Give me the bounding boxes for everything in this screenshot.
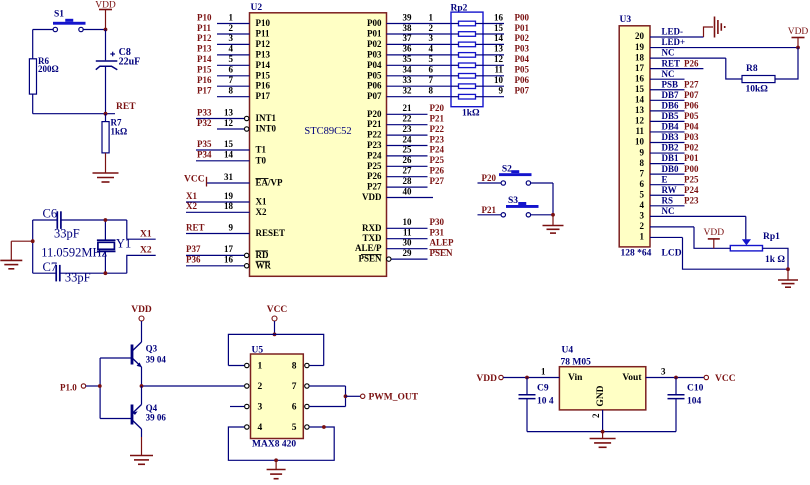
Rp2 pin 14 wire [483, 33, 529, 44]
svg-text:1kΩ: 1kΩ [462, 109, 480, 119]
Rp2 resistor 8 [459, 94, 476, 99]
Rp2 pin 15 wire [483, 23, 529, 34]
wire [32, 30, 34, 59]
svg-text:P02: P02 [367, 39, 382, 49]
svg-text:P26: P26 [367, 171, 382, 181]
Rp2 pin 13 wire [483, 44, 529, 55]
wire [141, 437, 143, 456]
U2 pin 35 wire (P04) [367, 54, 451, 70]
U2 pin 12 wire (INT0) [197, 118, 277, 134]
svg-text:5: 5 [429, 54, 434, 64]
Rp2 pin 16 wire [483, 12, 529, 23]
wire pin4/pin5 ground loop [228, 427, 334, 460]
Rp2 resistor 5 [459, 63, 476, 68]
svg-text:P15: P15 [256, 70, 271, 80]
wire [104, 251, 106, 273]
svg-text:Vin: Vin [568, 373, 583, 383]
svg-text:P05: P05 [684, 111, 699, 121]
svg-text:P11: P11 [197, 23, 212, 33]
U3 pin 18 wire (NC) [635, 48, 726, 63]
Rp2 resistor 7 [459, 84, 476, 89]
svg-text:31: 31 [224, 172, 234, 182]
U3 pin 16 wire (NC) [635, 69, 685, 84]
svg-text:DB7: DB7 [662, 90, 680, 100]
U2 pin 33 wire (P06) [367, 75, 451, 91]
svg-text:P07: P07 [684, 90, 699, 100]
svg-text:P24: P24 [367, 150, 382, 160]
svg-text:17: 17 [635, 63, 645, 73]
U2 pin 34 wire (P05) [367, 65, 451, 81]
svg-text:Q3: Q3 [146, 344, 158, 354]
svg-text:39 06: 39 06 [146, 413, 167, 423]
svg-text:P22: P22 [430, 124, 445, 134]
svg-text:S3: S3 [508, 196, 518, 206]
svg-text:P05: P05 [367, 70, 382, 80]
wire [104, 220, 106, 240]
svg-text:6: 6 [429, 65, 434, 75]
svg-text:P01: P01 [515, 23, 530, 33]
U2 pin 4 wire (P13) [197, 44, 270, 60]
svg-text:P03: P03 [515, 44, 530, 54]
U2 pin 21 wire (P20) [367, 103, 444, 119]
node junction [786, 267, 790, 271]
Rp2 pin 1 wire [429, 12, 484, 23]
svg-text:30: 30 [403, 238, 413, 248]
svg-text:P04: P04 [367, 60, 382, 70]
Rp2 pin 12 wire [483, 54, 529, 65]
svg-text:10: 10 [494, 75, 504, 85]
node junction [344, 394, 348, 398]
svg-text:P04: P04 [684, 122, 699, 132]
svg-text:P06: P06 [684, 100, 699, 110]
svg-text:ALE/P: ALE/P [355, 243, 382, 253]
Rp2 pin 6 wire [429, 65, 484, 76]
svg-text:U4: U4 [562, 346, 574, 356]
svg-text:ALEP: ALEP [430, 238, 455, 248]
svg-text:13: 13 [494, 44, 504, 54]
svg-text:P27: P27 [684, 79, 699, 89]
svg-text:PSB: PSB [662, 79, 679, 89]
svg-text:S2: S2 [502, 165, 512, 175]
wire LED- to ground [704, 27, 714, 37]
svg-text:20: 20 [635, 31, 645, 41]
svg-text:6: 6 [292, 403, 297, 413]
wire bottom rail [527, 431, 676, 433]
svg-text:7: 7 [429, 75, 434, 85]
wire pin18 to R8 [726, 58, 742, 79]
svg-text:P04: P04 [515, 54, 530, 64]
svg-text:C9: C9 [537, 384, 549, 394]
svg-text:P06: P06 [367, 81, 382, 91]
U4 pin 2 (GND) [591, 410, 603, 432]
svg-text:U2: U2 [251, 3, 263, 13]
U2 pin 36 wire (P03) [367, 44, 451, 60]
U2 pin 18 wire (X2) [186, 201, 267, 217]
wire [675, 399, 677, 432]
svg-text:P14: P14 [256, 60, 271, 70]
svg-text:14: 14 [494, 33, 504, 43]
svg-text:DB2: DB2 [662, 143, 680, 153]
U3 pin 5 wire (RW P24) [640, 185, 699, 200]
svg-text:X2: X2 [256, 207, 267, 217]
wire pin2 to Rp1 left [694, 227, 730, 248]
svg-text:Vout: Vout [622, 373, 642, 383]
node junction gnd [31, 239, 35, 243]
wire [275, 460, 277, 469]
wire [478, 182, 502, 184]
U2 pin 23 wire (P22) [367, 124, 444, 140]
svg-text:P20: P20 [367, 109, 382, 119]
svg-text:10: 10 [635, 137, 645, 147]
svg-text:19: 19 [635, 42, 645, 52]
ground [778, 280, 798, 287]
capacitor C7 [43, 260, 91, 284]
wire [503, 377, 559, 379]
Rp2 pin 7 wire [429, 75, 484, 86]
U2 pin 6 wire (P15) [197, 65, 270, 81]
svg-text:4: 4 [429, 44, 434, 54]
svg-text:P11: P11 [256, 29, 271, 39]
Rp2 pin 11 wire [483, 65, 529, 76]
ground [590, 439, 616, 448]
resistor R8 [742, 64, 775, 95]
svg-text:10kΩ: 10kΩ [746, 85, 769, 95]
svg-text:P20: P20 [482, 173, 497, 183]
svg-text:33pF: 33pF [54, 227, 80, 241]
svg-text:P22: P22 [367, 130, 382, 140]
IC U3 body (LCD 128*64) [619, 26, 650, 247]
Rp2 pin 10 wire [483, 75, 529, 86]
svg-text:LED-: LED- [662, 27, 684, 37]
svg-text:6: 6 [640, 179, 645, 189]
wire [478, 214, 502, 216]
svg-text:P30: P30 [430, 217, 445, 227]
svg-text:P17: P17 [256, 91, 271, 101]
svg-text:4: 4 [258, 423, 263, 433]
svg-text:38: 38 [403, 23, 413, 33]
U2 pin 14 wire (T0) [196, 150, 267, 166]
svg-text:VDD: VDD [131, 305, 152, 315]
svg-text:P20: P20 [430, 103, 445, 113]
U5 pin 8 [292, 362, 309, 372]
svg-text:P10: P10 [256, 18, 271, 28]
U3 pin 2 wire [640, 221, 695, 231]
svg-text:VDD: VDD [362, 192, 382, 202]
U2 pin 16 wire (WR) [186, 255, 272, 271]
U2 pin 2 wire (P11) [197, 23, 270, 39]
wire [32, 94, 34, 114]
node junction [104, 218, 108, 222]
svg-text:5: 5 [640, 189, 645, 199]
power VDD (Rp1) [704, 228, 725, 248]
node VDD input [476, 374, 503, 384]
svg-text:P21: P21 [430, 114, 445, 124]
svg-text:33: 33 [403, 75, 413, 85]
capacitor C8 [96, 47, 140, 70]
IC U5 body [251, 354, 304, 439]
svg-text:13: 13 [224, 107, 234, 117]
U2 pin 7 wire (P16) [197, 75, 270, 91]
svg-text:VDD: VDD [95, 1, 116, 11]
IC U4 body [559, 367, 645, 410]
svg-text:Q4: Q4 [146, 403, 158, 413]
power VDD (top-left) [95, 1, 116, 30]
svg-text:26: 26 [403, 155, 413, 165]
svg-text:P00: P00 [367, 18, 382, 28]
wire [60, 272, 127, 274]
wire pin1 bottom run [683, 237, 789, 269]
wire Rp1 right [763, 248, 789, 269]
U2 pin 5 wire (P14) [197, 54, 270, 70]
svg-text:RET: RET [662, 58, 681, 68]
switch S2 [499, 165, 532, 186]
svg-text:P1.0: P1.0 [60, 382, 77, 392]
U2 pin 15 wire (T1) [196, 139, 267, 155]
wire [10, 241, 12, 260]
svg-text:WR: WR [256, 260, 272, 270]
U3 pin 13 wire (DB6 P06) [635, 100, 699, 115]
wire [531, 182, 554, 184]
U3 pin 9 wire (DB2 P02) [640, 143, 699, 158]
wire [61, 219, 127, 221]
svg-text:X2: X2 [140, 246, 152, 256]
svg-text:P13: P13 [197, 44, 212, 54]
U2 pin 1 wire (P10) [197, 12, 270, 28]
U3 pin 19 wire (LED+) [635, 37, 798, 52]
svg-text:1: 1 [258, 362, 263, 372]
U2 pin 40 wire (VDD) [362, 186, 433, 202]
svg-text:P10: P10 [197, 12, 212, 22]
svg-text:8: 8 [292, 362, 297, 372]
U4 pin names [568, 373, 642, 407]
svg-text:P05: P05 [515, 65, 530, 75]
svg-text:37: 37 [403, 33, 413, 43]
wire pin3 stub [230, 406, 244, 408]
svg-text:12: 12 [224, 118, 234, 128]
wire RET net [33, 113, 115, 115]
Rp2 pin 2 wire [429, 23, 484, 34]
svg-text:P37: P37 [186, 244, 201, 254]
svg-text:34: 34 [403, 65, 413, 75]
capacitor C10 [668, 378, 704, 407]
svg-text:VCC: VCC [267, 305, 288, 315]
svg-text:P02: P02 [515, 33, 530, 43]
U2 pin 30 wire (ALE/P) [355, 238, 454, 254]
node junction [322, 425, 326, 429]
svg-text:P12: P12 [256, 39, 271, 49]
resistor R7 [102, 118, 127, 153]
svg-text:P01: P01 [684, 153, 699, 163]
svg-text:P16: P16 [256, 81, 271, 91]
svg-text:INT1: INT1 [256, 113, 277, 123]
svg-text:P25: P25 [430, 155, 445, 165]
svg-text:S1: S1 [54, 10, 64, 20]
svg-text:9: 9 [229, 222, 234, 232]
svg-text:16: 16 [224, 255, 234, 265]
svg-text:STC89C52: STC89C52 [304, 126, 351, 137]
U3 pin 4 wire (RS P23) [640, 195, 699, 210]
svg-text:GND: GND [596, 385, 606, 406]
svg-text:22uF: 22uF [119, 57, 141, 68]
U2 pin 17 wire (RD) [186, 244, 269, 260]
wire emitter junction to U5 pin2 [142, 385, 245, 387]
U3 pin 17 wire (RET P26) [635, 58, 703, 73]
svg-text:29: 29 [403, 248, 413, 258]
svg-text:1kΩ: 1kΩ [111, 127, 128, 137]
wire [345, 386, 347, 407]
svg-text:P00: P00 [684, 164, 699, 174]
svg-text:R8: R8 [746, 64, 758, 74]
svg-text:P01: P01 [367, 29, 382, 39]
U3 pin 8 wire (DB1 P01) [640, 153, 699, 168]
U2 pin 25 wire (P24) [367, 145, 444, 161]
ground [130, 456, 153, 465]
svg-text:INT0: INT0 [256, 124, 277, 134]
U2 pin 24 wire (P23) [367, 134, 444, 150]
ground (sideways) [715, 17, 725, 38]
U3 pin 12 wire (DB5 P05) [635, 111, 699, 126]
capacitor C6 [43, 207, 80, 241]
svg-text:X1: X1 [256, 197, 267, 207]
svg-text:11: 11 [635, 126, 644, 136]
svg-text:RXD: RXD [362, 223, 382, 233]
U5 pin 6 [292, 403, 309, 413]
svg-text:P34: P34 [197, 150, 212, 160]
node junction [274, 458, 278, 462]
U5 pin 7 [292, 382, 309, 392]
svg-text:2: 2 [229, 23, 234, 33]
wire [141, 386, 143, 405]
Rp2 pin 9 wire [483, 86, 529, 97]
svg-text:18: 18 [224, 201, 234, 211]
U2 pin 9 wire (RESET) [186, 222, 285, 238]
svg-text:4: 4 [229, 44, 234, 54]
svg-text:15: 15 [494, 23, 504, 33]
U3 pin 14 wire (DB7 P07) [635, 90, 699, 105]
svg-text:16: 16 [494, 12, 504, 22]
svg-text:17: 17 [224, 244, 234, 254]
svg-text:EA/VP: EA/VP [256, 178, 284, 188]
svg-text:P00: P00 [515, 12, 530, 22]
svg-text:P33: P33 [197, 107, 212, 117]
svg-text:VCC: VCC [184, 175, 205, 185]
svg-text:RET: RET [116, 102, 136, 112]
U2 pin 31 wire (EA/VP) [207, 172, 284, 188]
svg-text:T1: T1 [256, 145, 267, 155]
node junction [104, 112, 108, 116]
node junction [601, 430, 605, 434]
svg-text:1: 1 [429, 12, 434, 22]
svg-text:35: 35 [403, 54, 413, 64]
svg-text:39: 39 [403, 12, 413, 22]
wire [33, 272, 57, 274]
svg-text:12: 12 [494, 54, 504, 64]
svg-text:P02: P02 [684, 143, 699, 153]
svg-text:128 *64: 128 *64 [621, 249, 652, 259]
switch S3 [501, 196, 538, 217]
U2 pin 26 wire (P25) [367, 155, 444, 171]
U2 pin 27 wire (P26) [367, 166, 444, 182]
svg-text:VDD: VDD [476, 374, 497, 384]
svg-text:P35: P35 [197, 139, 212, 149]
svg-text:C7: C7 [43, 260, 58, 274]
svg-text:8: 8 [229, 86, 234, 96]
svg-text:X1: X1 [140, 230, 152, 240]
svg-text:18: 18 [635, 52, 645, 62]
wire pin7 [309, 385, 345, 387]
svg-text:DB1: DB1 [662, 153, 680, 163]
svg-text:3: 3 [258, 403, 263, 413]
U2 pin 10 wire (RXD) [362, 217, 444, 233]
svg-text:6: 6 [229, 65, 234, 75]
svg-text:DB3: DB3 [662, 132, 680, 142]
U5 pin 5 [292, 423, 309, 433]
ground [267, 470, 286, 479]
svg-text:21: 21 [403, 103, 413, 113]
svg-text:RET: RET [186, 222, 205, 232]
svg-text:P21: P21 [367, 119, 382, 129]
svg-text:C6: C6 [43, 207, 58, 221]
svg-text:LCD: LCD [662, 249, 682, 259]
IC U3 caption [621, 249, 682, 259]
wire [141, 321, 143, 342]
U3 pin 6 wire (E P25) [640, 174, 699, 189]
svg-text:P26: P26 [684, 58, 699, 68]
wire X2 stub [127, 255, 156, 273]
svg-text:P21: P21 [482, 205, 497, 215]
wire R8 to VDD [775, 48, 798, 79]
svg-text:P13: P13 [256, 49, 271, 59]
svg-text:9: 9 [499, 86, 504, 96]
svg-text:36: 36 [403, 44, 413, 54]
node junction [551, 213, 555, 217]
svg-text:22: 22 [403, 114, 413, 124]
svg-text:P25: P25 [367, 161, 382, 171]
svg-text:U3: U3 [620, 15, 632, 25]
wire [86, 385, 100, 387]
svg-text:15: 15 [635, 84, 645, 94]
svg-text:3: 3 [640, 211, 645, 221]
wire [32, 220, 34, 273]
wire [33, 29, 53, 31]
Rp2 resistor 3 [459, 42, 476, 47]
svg-text:24: 24 [403, 134, 413, 144]
node junction [104, 271, 108, 275]
svg-text:NC: NC [662, 206, 675, 216]
Rp2 resistor 2 [459, 32, 476, 37]
U2 pin 3 wire (P12) [197, 33, 270, 49]
svg-text:P32: P32 [197, 118, 212, 128]
wire pin6 [309, 406, 345, 408]
wire [228, 365, 244, 367]
U3 pin 15 wire (PSB P27) [635, 79, 699, 94]
svg-text:X2: X2 [186, 201, 197, 211]
power VCC port (pin 31) [184, 175, 207, 187]
U5 pin 3 [245, 403, 263, 413]
svg-text:11: 11 [494, 65, 503, 75]
wire [33, 219, 58, 221]
svg-text:13: 13 [635, 105, 645, 115]
svg-text:P24: P24 [684, 185, 699, 195]
U3 pin 11 wire (DB4 P04) [635, 122, 699, 137]
svg-text:39 04: 39 04 [146, 355, 167, 365]
wire [552, 183, 554, 215]
svg-text:23: 23 [403, 124, 413, 134]
svg-text:P31: P31 [430, 228, 445, 238]
svg-text:E: E [662, 174, 668, 184]
U2 pin 37 wire (P02) [367, 33, 451, 49]
wire [11, 240, 32, 242]
